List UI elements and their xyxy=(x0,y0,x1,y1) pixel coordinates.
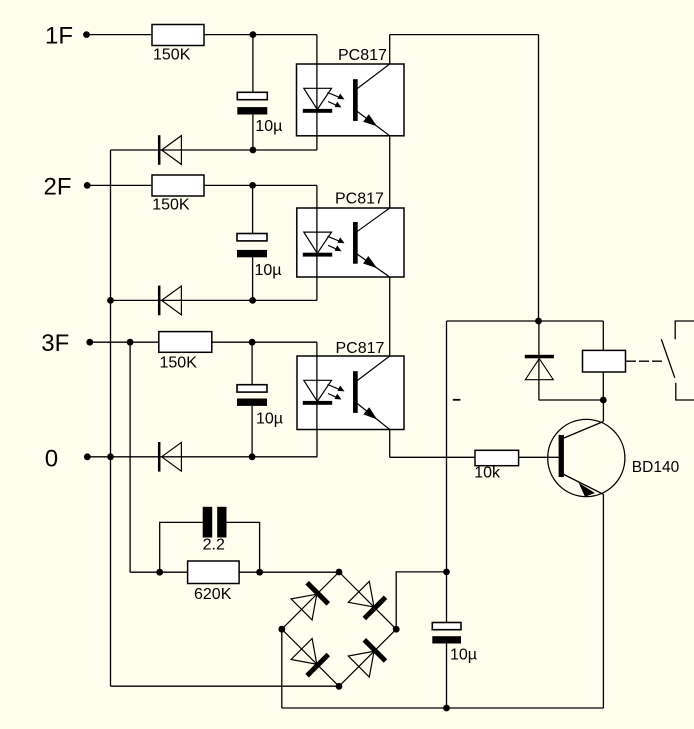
svg-text:10µ: 10µ xyxy=(256,410,283,427)
wire C3 to row 0 xyxy=(251,406,253,457)
wire switch top contact lead xyxy=(675,321,694,339)
bridge diode D8 (left to top) xyxy=(291,583,328,620)
wire D5 to relay bottom node xyxy=(539,399,604,401)
svg-text:2F: 2F xyxy=(44,174,72,201)
svg-text:10µ: 10µ xyxy=(255,118,282,135)
capacitor C5 10u xyxy=(432,623,461,644)
capacitor C2 10u xyxy=(237,234,267,258)
capacitor C1 10u xyxy=(237,92,267,114)
wire U1 collector riser to top rail xyxy=(389,35,391,64)
wire U3 emitter to R4 10k xyxy=(390,456,475,458)
bridge diode D6 (top to right) xyxy=(348,581,385,618)
wire LED2 cathode drop xyxy=(316,254,318,301)
wire LED2 anode riser xyxy=(316,185,318,253)
wire middle rail down to bridge output xyxy=(446,321,448,623)
wire 620K node to bridge top xyxy=(239,571,339,573)
resistor R2 150K xyxy=(152,175,204,196)
optocoupler U3 PC817 xyxy=(297,356,404,430)
svg-text:2.2: 2.2 xyxy=(203,537,225,554)
wire second rail vertical xyxy=(129,342,131,572)
wire 2F node to R2 xyxy=(87,184,152,186)
resistor R3 150K xyxy=(159,332,212,353)
node 1F terminal dot xyxy=(83,31,90,38)
wire LED3 cathode drop xyxy=(316,402,318,457)
wire relay coil bottom lead xyxy=(602,372,604,400)
wire R1 to LED1 anode corner xyxy=(204,34,317,36)
wire diode row 2 horizontal xyxy=(111,299,317,301)
wire left rail to bridge bottom xyxy=(111,685,340,687)
wire U2 emitter to U3 collector xyxy=(389,277,391,356)
wire C4 left branch xyxy=(160,522,203,572)
wire R4 to Q1 base xyxy=(519,456,559,458)
svg-text:1F: 1F xyxy=(45,22,73,49)
wire 1F node to R1 xyxy=(87,34,153,36)
bridge diode D7 (bottom to right) xyxy=(348,640,385,677)
diode D2 xyxy=(159,286,181,316)
wire U1 emitter to U2 collector xyxy=(389,136,391,208)
svg-text:10µ: 10µ xyxy=(450,646,477,663)
junction dot row2/C2 xyxy=(249,297,256,304)
wire node B down to C2 xyxy=(252,185,254,233)
diode D3 xyxy=(159,442,181,472)
wire node C down to C3 xyxy=(251,342,253,385)
bridge arm left-top xyxy=(282,572,339,629)
svg-text:150K: 150K xyxy=(152,196,190,213)
relay K1 coil xyxy=(583,350,626,372)
capacitor C4 2.2 xyxy=(203,507,227,538)
wire C1 to diode row 1 xyxy=(252,115,254,151)
optocoupler U1 PC817 xyxy=(297,64,405,136)
svg-text:150K: 150K xyxy=(153,46,191,63)
diode D5 flyback xyxy=(525,355,554,380)
switch blade S1 xyxy=(661,339,675,378)
wire right supply rail down xyxy=(538,35,540,321)
wire switch bottom contact lead xyxy=(676,383,694,400)
svg-text:10k: 10k xyxy=(474,465,501,482)
transistor Q1 BD140 xyxy=(548,400,625,497)
junction dot row0/C3 xyxy=(249,453,256,460)
wire relay supply row xyxy=(447,320,604,322)
wire diode row 1 horizontal xyxy=(111,149,317,151)
svg-text:PC817: PC817 xyxy=(338,47,387,64)
resistor R5 620K xyxy=(188,561,240,584)
svg-text:PC817: PC817 xyxy=(336,340,385,357)
junction dot left rail row0 xyxy=(107,453,114,460)
dashed actuation link relay to switch xyxy=(626,360,663,362)
node 2F terminal dot xyxy=(84,182,91,189)
junction dot bridge bottom corner xyxy=(336,683,343,690)
wire C4 right branch xyxy=(227,522,260,572)
wire U3 emitter drop xyxy=(389,430,391,458)
bridge arm top-right xyxy=(339,572,396,629)
svg-text:0: 0 xyxy=(45,446,58,473)
svg-text:620K: 620K xyxy=(194,586,232,603)
svg-text:PC817: PC817 xyxy=(335,190,384,207)
wire D5 lead through xyxy=(538,321,540,400)
wire LED3 anode riser xyxy=(316,342,318,402)
junction dot bridge left corner xyxy=(278,626,285,633)
junction dot supply/right rail xyxy=(535,318,542,325)
junction dot bottom rail / C5 xyxy=(443,705,450,712)
svg-text:3F: 3F xyxy=(41,330,69,357)
wire R3 to LED3 anode corner xyxy=(212,341,317,343)
junction dot node A (R1/C1) xyxy=(250,31,257,38)
wire LED1 cathode drop xyxy=(316,110,318,150)
bridge arm bottom-left xyxy=(282,629,339,686)
junction dot 620K left node xyxy=(156,569,163,576)
junction dot left rail row2 xyxy=(107,297,114,304)
junction dot node C (R3/C3) xyxy=(249,339,256,346)
node 0 terminal dot xyxy=(84,453,91,460)
diode D1 xyxy=(159,135,181,165)
node 3F terminal dot xyxy=(86,339,93,346)
svg-text:BD140: BD140 xyxy=(632,459,680,476)
optocoupler U2 PC817 xyxy=(297,208,404,277)
wire LED1 anode riser xyxy=(316,35,318,110)
wire R2 to LED2 anode corner xyxy=(204,184,317,186)
wire row 0 horizontal xyxy=(87,456,317,458)
junction dot bridge right corner xyxy=(393,626,400,633)
wire left rail vertical xyxy=(110,150,112,686)
wire second rail to 620K node xyxy=(130,571,188,573)
svg-text:150K: 150K xyxy=(160,354,198,371)
wire C5 bottom lead xyxy=(446,644,448,709)
wire C2 to diode row 2 xyxy=(252,257,254,300)
junction dot bridge top corner xyxy=(336,569,343,576)
bridge diode D9 (left to bottom) xyxy=(291,639,328,676)
junction dot node B (R2/C2) xyxy=(249,182,256,189)
wire bottom rail xyxy=(282,707,604,709)
wire 3F node to R3 xyxy=(90,341,159,343)
junction dot 3F/second rail xyxy=(127,339,134,346)
junction dot relay bottom / collector xyxy=(600,397,607,404)
minus polarity mark xyxy=(453,399,461,401)
wire relay coil top lead xyxy=(602,321,604,350)
resistor R4 10k xyxy=(475,450,519,465)
svg-text:10µ: 10µ xyxy=(255,262,282,279)
junction dot bridge output / middle rail xyxy=(443,569,450,576)
wire bridge right corner riser xyxy=(396,572,446,629)
resistor R1 150K xyxy=(152,25,204,46)
wire node A down to C1 xyxy=(252,35,254,93)
wire Q1 emitter down xyxy=(602,494,604,708)
wire bridge left corner drop xyxy=(281,629,283,708)
junction dot row1/C1 xyxy=(250,147,257,154)
wire top supply rail xyxy=(390,34,539,36)
capacitor C3 10u xyxy=(237,385,267,406)
junction dot 620K right node xyxy=(256,569,263,576)
bridge arm right-bottom xyxy=(339,629,396,686)
